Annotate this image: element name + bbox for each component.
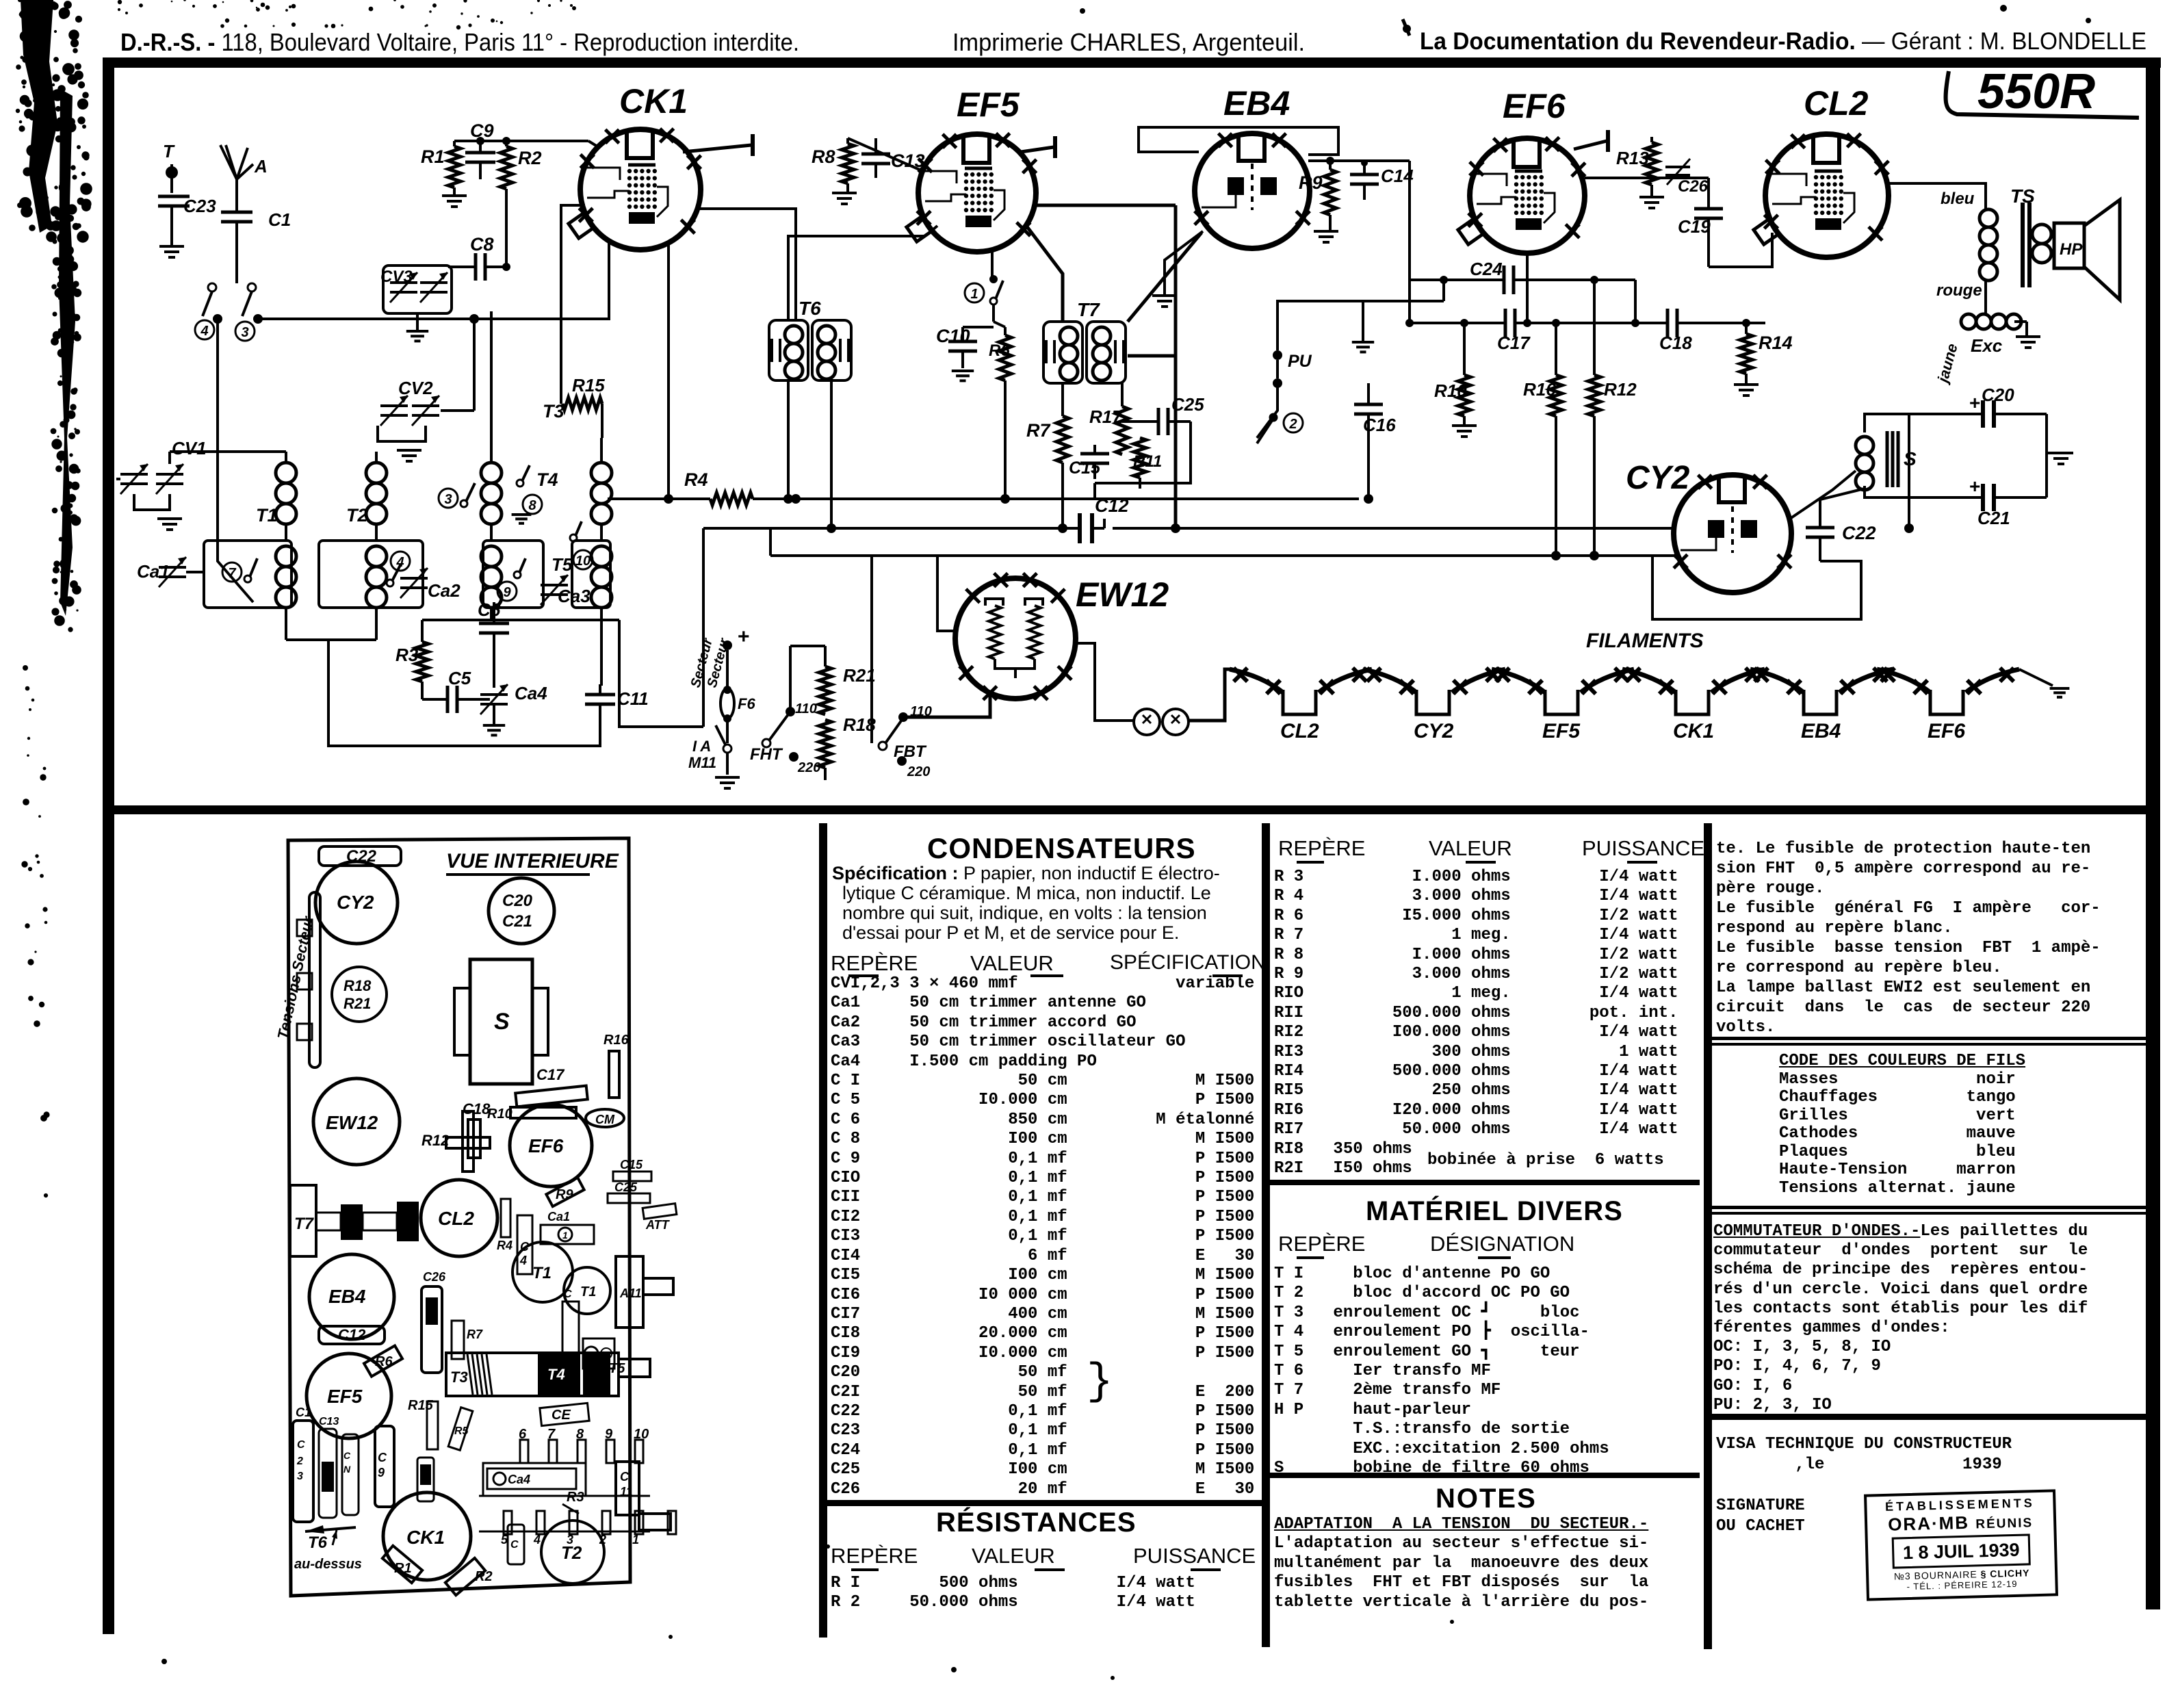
title MATERIEL DIVERS [1366,1196,1623,1227]
wire to C17 bus [1408,161,1411,323]
svg-text:T4: T4 [536,469,558,490]
resistor R2 [500,146,512,189]
chassis C15 C25 [613,1172,651,1181]
wire EF6 plate [1585,147,1628,185]
chassis T7 coil blobs [341,1204,363,1240]
node 4 [195,320,214,339]
node 8 switch [523,495,542,514]
svg-text:R2: R2 [518,148,542,168]
capacitor C10 [948,340,977,344]
table header resistances A [831,1544,918,1568]
wire grid top [454,140,588,142]
svg-text:3: 3 [444,492,452,507]
table header condensateurs [831,951,918,976]
table condensateurs rows [831,974,1254,1499]
svg-text:C17: C17 [536,1066,565,1083]
svg-text:T6: T6 [799,298,821,319]
ground [832,192,857,194]
resistor R21 [819,667,831,714]
resistor R9 [1324,170,1336,215]
table header resistances B [1278,836,1365,861]
wire [186,571,204,573]
ground [397,449,421,452]
chassis CY2 [315,862,398,944]
resistor R12 [1588,375,1600,416]
svg-text:N: N [343,1464,351,1475]
chassis R10 [510,1107,576,1118]
svg-text:4: 4 [533,1533,541,1547]
svg-text:R4: R4 [684,469,708,490]
resistor R17 [1116,406,1128,454]
chassis R16 [609,1051,619,1098]
chassis R18 R21 [332,967,387,1022]
pickup terminal PU [1273,350,1282,360]
resistor R6 [999,335,1011,380]
svg-text:CV3: CV3 [380,268,413,286]
wire [1257,383,1277,438]
filament EB4 [1750,669,1804,693]
coupling wires T2 [375,524,378,541]
capacitor C14 [1350,173,1379,177]
chassis C1 C23 strip [293,1421,313,1522]
chassis R2 slant [445,1558,485,1595]
svg-text:EF5: EF5 [957,86,1020,124]
svg-text:R4: R4 [497,1239,512,1252]
svg-text:9: 9 [378,1466,385,1479]
wire CV3 to C8 [452,287,465,288]
transformer T1 primary [276,463,296,483]
excitation coil Exc [1961,314,1976,329]
wire [848,138,920,170]
chassis side lug right 2 [619,1359,650,1377]
svg-text:EW12: EW12 [1076,575,1169,614]
svg-text:6: 6 [519,1427,527,1442]
left border bar [103,66,114,1634]
capacitor C6 [479,622,509,625]
transformer T1 secondary box [204,541,291,608]
svg-text:T4: T4 [547,1366,565,1383]
chassis Ca boxes mid [562,1302,579,1367]
svg-text:CY2: CY2 [337,892,374,913]
transformer T7 secondary box [1087,322,1126,383]
chassis Ca1 box [541,1225,594,1244]
visa technique [1716,1434,2012,1475]
svg-text:220: 220 [797,760,820,775]
fuse FHT selector [762,739,770,747]
bus wire C [770,554,1674,557]
notes paragraph [1274,1515,1648,1612]
chassis C-M oval [586,1109,624,1127]
variable capacitor CV3 [383,266,452,313]
chassis switch top row [520,1440,528,1463]
svg-text:T2: T2 [561,1542,582,1563]
wire TS to Exc [1984,281,1987,315]
wire lamps to filament chain [1189,669,1231,721]
ground [1152,294,1177,297]
chassis arrow [305,1527,356,1531]
svg-text:+: + [1969,476,1980,497]
antenna A [220,145,237,212]
capacitor C17 [1504,309,1507,337]
chassis side lug right [616,1256,643,1328]
svg-text:2: 2 [1288,417,1297,432]
transformer T6 secondary box [812,320,851,380]
transformer T6 primary box [769,320,808,380]
transformer T4 coil [481,463,502,483]
transformer T2 primary [366,463,387,483]
svg-text:110: 110 [795,701,817,716]
svg-text:CM: CM [595,1113,615,1126]
svg-text:bleu: bleu [1941,190,1975,208]
wire EB4 plate [1308,159,1410,162]
svg-text:R17: R17 [1089,406,1123,427]
svg-text:R7: R7 [467,1328,483,1341]
svg-text:C8: C8 [470,234,494,255]
rule under condensateurs [827,1500,1262,1506]
wire [992,305,995,322]
svg-text:C21: C21 [1977,508,2010,528]
svg-text:HP: HP [2060,240,2083,259]
svg-text:T: T [163,141,175,161]
resistor R18 [819,720,831,768]
wire EF5 plate to T7 [1026,226,1063,322]
capacitor C15 [1080,452,1109,456]
wire jaune [1947,397,1948,414]
svg-text:R3: R3 [567,1490,584,1505]
chassis T7 tab [290,1185,316,1256]
svg-text:T1: T1 [256,505,278,526]
tube EF6 [1470,138,1585,253]
trimmer C26 [1665,166,1690,168]
chassis T2 [541,1521,604,1583]
resistor R16 [1550,375,1562,416]
rule under materiel [1270,1473,1700,1478]
ground [483,724,505,727]
coupling wires oscillator [600,524,603,541]
chassis R5 slant [448,1408,473,1451]
ground [2016,335,2040,338]
svg-text:EF6: EF6 [528,1135,564,1156]
svg-text:R8: R8 [812,146,835,167]
filter coil S [1856,437,1873,454]
svg-text:CV2: CV2 [398,378,433,398]
chassis R9 [546,1178,584,1206]
svg-text:C19: C19 [1678,216,1711,237]
svg-text:CL2: CL2 [438,1208,474,1229]
wire C19 to CL2 [1709,233,1772,267]
title CONDENSATEURS [927,832,1196,865]
wire EW12 right to lamps [1074,643,1133,721]
svg-text:C1: C1 [296,1406,311,1419]
svg-text:CK1: CK1 [619,82,688,120]
label box C22 [319,846,401,866]
svg-text:CV1: CV1 [172,438,207,458]
svg-text:T6: T6 [308,1534,328,1552]
ground [1734,383,1759,386]
switch contacts 4-3 [208,283,216,292]
chassis C11 tab [616,1462,639,1515]
svg-text:EF5: EF5 [327,1386,363,1407]
fusible paragraph [1716,839,2101,1037]
column bar 3 [1704,823,1712,1649]
svg-text:S: S [1904,448,1917,469]
column bar 2 [1262,823,1270,1647]
svg-text:R9: R9 [1299,172,1323,193]
stray specks bottom [951,1667,957,1672]
node 7 switch [222,562,242,582]
wire [490,383,493,463]
filament CK1 [1622,669,1676,693]
wire [170,206,173,245]
wires S [1865,414,1909,432]
capacitor C24 [1503,266,1506,294]
svg-text:R5: R5 [454,1425,469,1437]
ground [1639,196,1664,198]
wires detector [1095,478,1140,480]
svg-text:EB4: EB4 [1801,720,1841,742]
svg-text:Ca1: Ca1 [547,1210,570,1224]
svg-text:T1: T1 [580,1284,596,1299]
resistor R8 [842,144,854,183]
capacitor C23 [158,195,190,198]
coupling wires T1 [285,524,287,541]
chassis C18 [468,1120,480,1158]
svg-text:EF6: EF6 [1503,87,1566,125]
svg-text:+: + [1969,392,1980,413]
header dash marks [848,974,879,977]
svg-text:1: 1 [562,1230,568,1241]
table materiel rows [1274,1265,1609,1478]
trimmer Ca2 [400,577,428,580]
chassis T1 [512,1242,573,1302]
table header materiel [1278,1232,1365,1256]
header dash marks [851,1568,879,1571]
wire CV3 to T4 coil [490,311,493,383]
chassis C26 strip [421,1286,442,1373]
chassis C12 box [319,1326,385,1344]
switch I A M11 [723,745,731,753]
svg-text:CL2: CL2 [1280,720,1319,742]
chassis switch Ca4 box [487,1468,576,1489]
chassis R-small near CL2 [501,1199,510,1237]
table resistances rows B [1274,868,1678,1179]
svg-text:Ca1: Ca1 [137,561,170,582]
chassis C3 strip [508,1525,524,1564]
svg-text:C12: C12 [338,1326,366,1343]
svg-text:PU: PU [1288,352,1312,371]
svg-text:R15: R15 [572,375,605,396]
node 2 switch [1269,413,1277,422]
svg-text:rouge: rouge [1936,281,1982,300]
svg-text:A11: A11 [619,1286,642,1300]
wire EB4 diode to T7 [1128,233,1202,322]
chassis ATT [643,1204,677,1219]
chassis R12 [446,1137,490,1148]
svg-text:FBT: FBT [894,742,927,761]
svg-text:S: S [494,1009,510,1035]
brace C20 C21 [1087,1358,1113,1407]
svg-text:T3: T3 [543,401,565,422]
svg-text:R13: R13 [1616,148,1649,168]
svg-text:T3: T3 [450,1369,468,1386]
tube CK1 [580,129,701,250]
chassis R15 [427,1401,438,1449]
svg-text:C23: C23 [183,196,216,216]
filament EF6 [1877,669,1930,693]
wire CK1 bottom to switch bus [474,243,609,319]
capacitor C5 [446,686,450,713]
svg-text:R11: R11 [1133,452,1162,471]
svg-text:C13: C13 [319,1416,339,1427]
svg-text:C17: C17 [1497,333,1531,353]
tube EF5 [918,134,1036,252]
svg-text:220: 220 [907,764,930,779]
chassis R7 strip [452,1321,464,1359]
svg-text:C: C [343,1450,351,1461]
svg-text:CE: CE [552,1408,571,1423]
svg-text:T2: T2 [346,505,368,526]
tube CL2 [1765,134,1889,257]
rule under commutateur [1712,1414,2146,1420]
svg-text:1: 1 [970,287,978,302]
svg-text:R15: R15 [408,1398,434,1413]
svg-text:R7: R7 [1026,420,1051,441]
svg-text:R21: R21 [343,995,371,1012]
tube EB4 frame [1139,127,1338,155]
svg-text:R10: R10 [1434,380,1467,401]
capacitor C13 [861,153,890,156]
wire [1881,668,1889,671]
chassis C9 strip [375,1426,394,1507]
svg-text:VUE INTERIEURE: VUE INTERIEURE [446,850,619,872]
middle divider rule [114,805,2146,814]
node 4 switch T2 [391,552,410,571]
scan noise left margin [35,31,44,40]
svg-text:R6: R6 [989,341,1010,360]
ground [1314,230,1338,233]
ground [512,513,532,516]
svg-text:1: 1 [632,1533,639,1547]
svg-text:R1: R1 [394,1561,412,1576]
resistor R11 potentiometer [1134,438,1146,478]
ground [1452,424,1477,427]
svg-text:C21: C21 [502,912,532,931]
svg-text:T5: T5 [552,554,573,575]
svg-text:FILAMENTS: FILAMENTS [1586,630,1704,652]
wire EF5 grid [925,226,937,236]
svg-text:C18: C18 [463,1100,491,1117]
chassis S transformer [470,959,532,1084]
wire [1496,668,1501,671]
terminal top right CK1 [683,145,751,152]
wire filament end ground [2019,669,2053,686]
capacitor C18 [1666,309,1670,337]
tube EW12 [955,578,1076,699]
svg-text:C6: C6 [478,599,501,620]
ground [2045,414,2048,497]
svg-text:C11: C11 [617,688,649,709]
resistor R7 [1056,416,1069,463]
capacitor C22 [1806,526,1834,530]
wire [235,222,238,283]
wire [473,319,476,411]
resistor R15 [562,398,602,410]
svg-text:C: C [620,1470,630,1484]
svg-text:4: 4 [519,1254,527,1267]
capacitor C21 [1981,484,1985,511]
wires T6 [787,380,790,495]
chassis outline [288,838,630,1596]
ground [157,517,182,520]
wire [1626,668,1630,671]
svg-text:C20: C20 [502,892,533,910]
resistor R10 [1458,375,1470,416]
chassis R1 slant [382,1546,422,1583]
svg-text:C12: C12 [1095,495,1129,516]
chassis EW12 [313,1078,400,1165]
svg-text:EB4: EB4 [1223,84,1290,122]
svg-text:11: 11 [620,1485,633,1499]
svg-text:C18: C18 [1659,333,1692,353]
capacitor C8 [474,253,478,281]
svg-text:3: 3 [297,1471,303,1482]
svg-text:ATT: ATT [645,1218,671,1232]
svg-text:C25: C25 [1171,394,1204,415]
svg-text:T1: T1 [532,1264,552,1282]
svg-text:C: C [378,1451,387,1464]
resistor R14 [1740,334,1752,374]
terminal top right EF5 [1021,147,1054,152]
svg-text:8: 8 [576,1427,584,1442]
svg-text:CK1: CK1 [406,1527,445,1548]
capacitor C19 [1694,207,1723,211]
svg-text:au-dessus: au-dessus [294,1557,362,1572]
chassis EF5 [307,1354,391,1438]
svg-text:C24: C24 [1470,259,1503,279]
resistor R3 [416,642,428,682]
svg-text:C1: C1 [268,209,291,230]
wire R2 down to C8 [505,189,508,267]
svg-text:T7: T7 [294,1215,315,1233]
svg-text:C20: C20 [1982,385,2014,405]
svg-text:EB4: EB4 [328,1286,366,1307]
resistor R4 [710,493,753,505]
svg-text:3: 3 [241,325,248,340]
wire EF5 screen supply [1036,204,1176,207]
ground [952,370,974,372]
svg-text:C: C [510,1539,519,1551]
svg-text:C: C [297,1439,305,1451]
trimmer Ca4 [480,693,508,696]
wire PU to detector line [1277,301,1444,350]
mains terminal + [723,640,732,650]
double rule [1712,1037,2146,1040]
svg-text:jaune: jaune [1934,341,1961,386]
svg-text:R14: R14 [1759,333,1793,353]
dial lamps [1134,709,1160,735]
wire bus C drop [769,528,772,556]
header dash marks [1297,861,1324,864]
chassis C17 [515,1086,588,1107]
bus wire B [703,527,1059,530]
node 3 [235,322,255,341]
right border bar [2146,62,2160,1609]
svg-text:CY2: CY2 [1626,460,1690,496]
svg-text:EW12: EW12 [326,1112,378,1133]
svg-text:R10: R10 [487,1107,512,1122]
chassis switch bottom row [504,1511,512,1534]
svg-text:R3: R3 [395,645,419,665]
